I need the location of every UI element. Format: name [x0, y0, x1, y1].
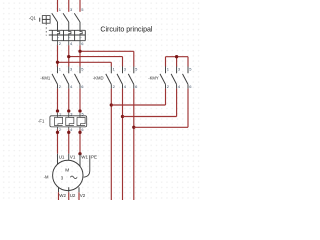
svg-text:-KMD: -KMD	[93, 75, 104, 80]
svg-text:W2: W2	[59, 193, 66, 198]
svg-text:4: 4	[124, 84, 127, 89]
svg-text:6: 6	[81, 41, 84, 46]
svg-text:U1: U1	[59, 154, 65, 159]
svg-text:2: 2	[59, 84, 62, 89]
svg-text:6: 6	[81, 84, 84, 89]
svg-text:5: 5	[81, 66, 84, 71]
svg-text:5: 5	[81, 7, 84, 12]
svg-text:6: 6	[189, 84, 192, 89]
svg-text:6: 6	[135, 84, 138, 89]
svg-text:5: 5	[189, 66, 192, 71]
svg-text:3: 3	[178, 66, 181, 71]
svg-text:V1: V1	[70, 154, 76, 159]
svg-text:1: 1	[113, 66, 116, 71]
svg-text:I>: I>	[79, 35, 82, 39]
svg-text:2: 2	[59, 41, 62, 46]
svg-text:3: 3	[124, 66, 127, 71]
svg-text:V2: V2	[80, 193, 86, 198]
svg-text:3: 3	[61, 175, 64, 180]
svg-text:-KM1: -KM1	[40, 75, 51, 80]
svg-text:1: 1	[167, 66, 170, 71]
svg-text:3: 3	[70, 66, 73, 71]
svg-text:I>: I>	[68, 35, 71, 39]
svg-text:4: 4	[178, 84, 181, 89]
svg-text:2: 2	[59, 128, 61, 132]
svg-text:-M: -M	[44, 174, 49, 179]
svg-text:1: 1	[59, 66, 62, 71]
svg-text:I>: I>	[57, 35, 60, 39]
svg-text:1: 1	[59, 7, 62, 12]
svg-text:M: M	[65, 168, 69, 174]
svg-text:Circuito principal: Circuito principal	[100, 27, 153, 34]
svg-text:4: 4	[70, 41, 73, 46]
svg-text:W1: W1	[81, 154, 88, 159]
svg-text:-KMY: -KMY	[148, 75, 159, 80]
svg-text:3: 3	[70, 7, 73, 12]
svg-text:5: 5	[135, 66, 138, 71]
svg-text:4: 4	[70, 84, 73, 89]
svg-text:2: 2	[113, 84, 116, 89]
svg-text:U2: U2	[70, 193, 76, 198]
svg-text:-F1: -F1	[38, 119, 45, 124]
svg-text:4: 4	[70, 128, 72, 132]
svg-text:6: 6	[81, 128, 83, 132]
svg-text:PE: PE	[91, 154, 97, 159]
svg-text:-Q1: -Q1	[29, 16, 37, 21]
svg-text:2: 2	[167, 84, 170, 89]
